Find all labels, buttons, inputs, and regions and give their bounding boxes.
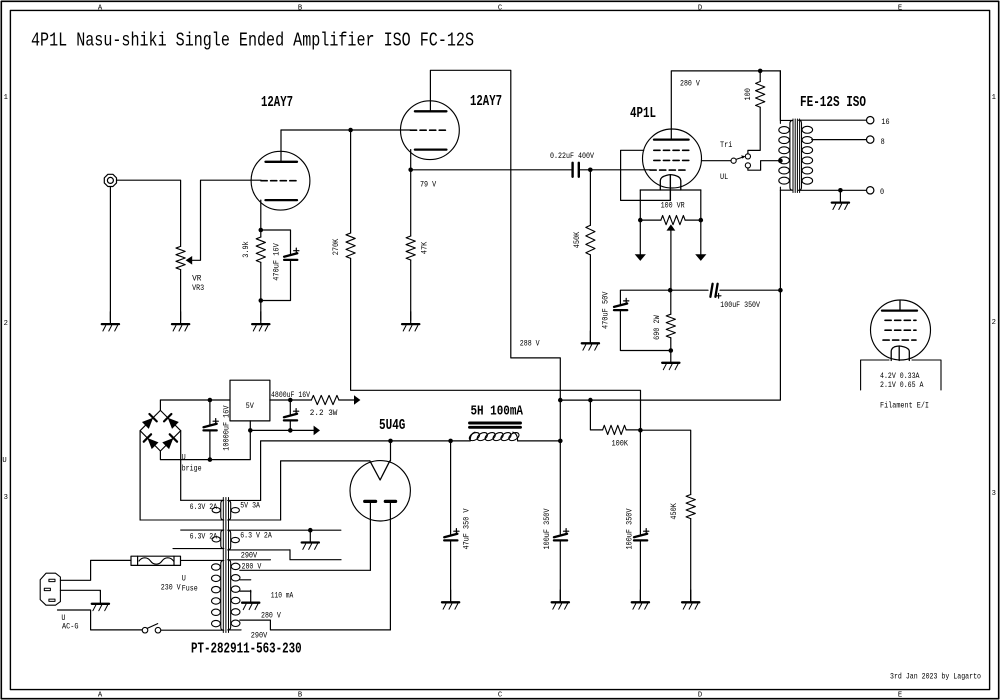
ground filter cap 1 xyxy=(559,590,561,602)
wire to filament plus arrow xyxy=(339,399,354,401)
svg-text:280 V: 280 V xyxy=(680,80,700,89)
triode V2 12AY7 cathode follower xyxy=(401,101,460,160)
svg-text:0.22uF 400V: 0.22uF 400V xyxy=(550,152,594,161)
wire AC earth pin to ground xyxy=(60,590,100,591)
junction filament rail right xyxy=(699,218,704,223)
svg-text:290V: 290V xyxy=(251,631,268,640)
svg-text:U: U xyxy=(2,457,6,465)
wire cathode bypass loop bottom xyxy=(261,260,291,301)
svg-text:16: 16 xyxy=(881,118,889,127)
svg-text:PT-282911-563-230: PT-282911-563-230 xyxy=(191,642,302,658)
wire g3 to filament center tap xyxy=(621,150,671,200)
svg-text:3.9k: 3.9k xyxy=(241,241,251,258)
junction V1 cathode bottom xyxy=(259,298,264,303)
wire 5V winding top to B+ rail xyxy=(261,441,391,501)
resistor 690 2W cathode bias xyxy=(670,290,672,314)
capacitor 470uF 16V cathode bypass xyxy=(284,259,297,261)
bridge diode top-left xyxy=(142,418,153,429)
ground V1 cathode xyxy=(260,312,262,324)
junction 47uF node xyxy=(448,439,453,444)
junction 288V at choke xyxy=(558,398,563,403)
resistor 100K decoupling xyxy=(603,425,627,434)
wire coupling cap to 4P1L grid xyxy=(580,169,650,171)
wire UL contact to UL tap xyxy=(748,161,781,171)
resistor 100 snubber xyxy=(759,71,761,82)
ground VR3 xyxy=(180,312,182,324)
svg-text:B: B xyxy=(298,4,303,12)
junction choke output xyxy=(558,439,563,444)
junction 4800uF top xyxy=(288,398,293,403)
junction 10000uF bottom xyxy=(208,457,213,462)
wire 100 ohm to Tri contact xyxy=(748,107,760,154)
wire V1 cathode to ground xyxy=(260,301,262,321)
ground OPT secondary xyxy=(839,190,841,202)
ground HV center tap xyxy=(250,590,252,602)
wire VR3 wiper to 12AY7 grid xyxy=(192,180,261,260)
wire VR3 bottom to ground xyxy=(180,270,182,321)
resistor 450K bleeder xyxy=(686,495,695,519)
AC inlet U AC-G xyxy=(40,573,60,605)
wire bridge minus rail xyxy=(160,430,250,459)
switch lever xyxy=(736,157,744,160)
input jack J1 xyxy=(104,174,116,186)
svg-text:47K: 47K xyxy=(420,242,429,254)
junction OPT bottom node xyxy=(778,288,783,293)
PT winding 6.3 V 2A secondary xyxy=(228,530,341,550)
wire V1 plate to node A xyxy=(280,130,282,162)
svg-text:brige: brige xyxy=(182,464,202,474)
svg-text:Filament E/I: Filament E/I xyxy=(880,401,929,411)
junction 100K feed xyxy=(588,398,593,403)
resistor 270K plate load xyxy=(350,130,352,233)
switch Tri contact xyxy=(745,154,750,159)
ground jack xyxy=(109,312,111,324)
PT primary 230V winding xyxy=(161,560,224,630)
ground 450K bleeder xyxy=(690,590,692,602)
wire HV center tap to ground xyxy=(240,590,251,593)
junction secondary ground xyxy=(838,188,843,193)
filament supply arrow minus xyxy=(314,426,320,436)
wire OPT primary bottom to B+ rail xyxy=(641,190,781,400)
svg-text:4P1L Nasu-shiki Single Ended A: 4P1L Nasu-shiki Single Ended Amplifier I… xyxy=(31,30,474,52)
svg-text:290V: 290V xyxy=(241,551,258,560)
svg-text:2.2 3W: 2.2 3W xyxy=(310,409,338,418)
wire regulator ground pin xyxy=(249,421,251,431)
svg-text:450K: 450K xyxy=(573,232,582,249)
wire decoupled node to 450K xyxy=(640,430,690,494)
PT core xyxy=(222,498,224,633)
junction 10000uF top xyxy=(208,398,213,403)
junction V2 cathode xyxy=(408,168,413,173)
bridge diode top-right xyxy=(168,418,179,429)
svg-text:2.1V 0.65 A: 2.1V 0.65 A xyxy=(880,381,924,390)
svg-text:280 V: 280 V xyxy=(242,562,262,571)
terminal 16 ohm xyxy=(867,117,874,124)
svg-text:6.3V 2A: 6.3V 2A xyxy=(190,533,218,542)
junction regulator ground xyxy=(248,428,253,433)
PT winding 6.3V 2A no1 xyxy=(140,500,224,520)
wire B+ rail from rectifier xyxy=(391,440,451,442)
wire 5U4G left plate to 280V tap xyxy=(369,503,371,570)
svg-text:3rd Jan 2023 by Lagarto: 3rd Jan 2023 by Lagarto xyxy=(890,672,981,682)
svg-text:230 V: 230 V xyxy=(161,583,181,592)
switch SW1 Tri/UL common contact xyxy=(731,158,736,163)
svg-text:D: D xyxy=(698,4,702,12)
svg-text:270K: 270K xyxy=(332,239,341,256)
PT HV winding 280-0-280 xyxy=(228,560,271,630)
svg-text:470uF 16V: 470uF 16V xyxy=(273,243,282,281)
svg-text:47uF 350 V: 47uF 350 V xyxy=(462,508,471,549)
svg-text:100uF 350V: 100uF 350V xyxy=(720,301,760,310)
wire 280V tap upper xyxy=(240,569,371,571)
svg-text:4P1L: 4P1L xyxy=(630,106,656,122)
svg-text:AC-G: AC-G xyxy=(62,623,79,632)
svg-text:470uF 50V: 470uF 50V xyxy=(601,292,610,330)
svg-text:5V 3A: 5V 3A xyxy=(240,501,260,510)
svg-text:Tri: Tri xyxy=(720,140,732,150)
wire 5U4G filament left to 5V winding xyxy=(281,461,370,520)
junction node A xyxy=(348,128,353,133)
svg-text:U: U xyxy=(182,454,186,463)
wire jack to VR3 top xyxy=(117,180,181,246)
ground 47K xyxy=(410,312,412,324)
5U4G plate bars xyxy=(365,500,376,503)
wire ultrapath cap to OPT bottom xyxy=(720,289,780,291)
potentiometer VR3 xyxy=(176,246,185,269)
OPT secondary winding xyxy=(799,120,867,190)
capacitor 47uF 350V reservoir xyxy=(450,441,452,534)
junction rectifier output xyxy=(388,439,393,444)
wire regulator output xyxy=(270,399,312,401)
wire g2 to switch common xyxy=(702,160,732,162)
svg-text:110 mA: 110 mA xyxy=(271,592,294,601)
OPT primary winding xyxy=(779,71,781,121)
svg-text:2: 2 xyxy=(992,319,996,327)
svg-text:C: C xyxy=(498,692,503,700)
wire 100VR wiper to cathode node xyxy=(670,231,672,291)
svg-text:6.3V 2A: 6.3V 2A xyxy=(190,503,218,512)
svg-text:E: E xyxy=(898,4,902,12)
junction filament rail left xyxy=(638,218,643,223)
svg-text:5H 100mA: 5H 100mA xyxy=(471,404,524,420)
filament supply arrow left xyxy=(639,220,641,254)
PT winding 6.3V 2A no2 xyxy=(173,530,224,549)
svg-text:5V: 5V xyxy=(246,402,254,411)
svg-text:12AY7: 12AY7 xyxy=(261,95,293,111)
tube 4P1L filament wiring info xyxy=(871,300,931,360)
junction cathode bottom xyxy=(669,348,674,353)
capacitor 100uF 350V filter 2 xyxy=(639,430,641,534)
ground heater winding xyxy=(309,530,311,542)
junction heater winding ground xyxy=(308,528,313,533)
capacitor 100uF 350V filter 1 xyxy=(559,441,561,534)
capacitor 10000uF 16V xyxy=(209,400,211,425)
wire heater winding bottom 290V step xyxy=(290,550,341,560)
svg-text:UL: UL xyxy=(720,173,728,182)
bridge diode bottom-right xyxy=(162,438,173,449)
wire bridge plus to regulator xyxy=(160,400,230,410)
svg-text:280 V: 280 V xyxy=(261,612,281,621)
junction 100K right node xyxy=(638,428,643,433)
svg-text:4.2V 0.33A: 4.2V 0.33A xyxy=(880,372,920,381)
svg-text:FE-12S ISO: FE-12S ISO xyxy=(800,95,866,111)
svg-text:A: A xyxy=(98,4,103,12)
capacitor 100uF 350V ultrapath xyxy=(710,284,712,297)
filament info box xyxy=(861,360,889,390)
svg-text:79 V: 79 V xyxy=(420,180,436,189)
svg-text:1: 1 xyxy=(4,94,8,102)
bridge diode bottom-left xyxy=(147,438,158,449)
wire unused tap stub xyxy=(240,579,251,581)
capacitor 470uF 50V cathode bypass xyxy=(614,309,627,311)
wire V2 cathode xyxy=(410,150,412,170)
wire 100K drop xyxy=(590,400,602,430)
wire 6.3V no1 top to bridge xyxy=(180,431,182,501)
ground 450K xyxy=(589,331,591,343)
svg-text:12AY7: 12AY7 xyxy=(470,94,502,110)
svg-text:3: 3 xyxy=(4,494,8,502)
terminal 0 ohm xyxy=(867,187,874,194)
fuse F1 xyxy=(131,556,181,565)
filament supply arrow right xyxy=(700,220,702,254)
wire 5U4G right plate to lower 280V tap xyxy=(389,503,391,630)
junction 100 ohm tap xyxy=(758,69,763,74)
resistor 2.2 3W filament dropper xyxy=(311,395,339,404)
triode V1 12AY7 first stage xyxy=(251,151,310,210)
svg-text:3: 3 xyxy=(992,490,996,498)
VR3 wiper arrow xyxy=(186,256,193,265)
wire 6.3V no1 bottom to bridge xyxy=(139,431,141,520)
svg-text:1: 1 xyxy=(992,94,996,102)
svg-text:VR: VR xyxy=(192,275,201,284)
switch UL contact xyxy=(745,163,750,168)
wire 280V tap lower step xyxy=(240,620,391,630)
OPT core xyxy=(792,119,794,193)
wire 470uF to bottom rail xyxy=(620,310,670,350)
pentode U2 4P1L output tube xyxy=(643,129,702,188)
resistor 47K cathode load xyxy=(410,170,412,236)
svg-text:0: 0 xyxy=(880,188,884,197)
terminal 8 ohm xyxy=(867,136,874,143)
svg-text:B: B xyxy=(298,692,303,700)
5U4G filament V xyxy=(370,461,390,480)
resistor 3.9k cathode xyxy=(260,230,262,237)
svg-text:100: 100 xyxy=(744,88,753,100)
ground 47uF xyxy=(450,590,452,602)
capacitor 4800uF 16V xyxy=(289,400,291,415)
svg-text:4800uF 16V: 4800uF 16V xyxy=(271,391,310,400)
wire 270K bottom to B+ node xyxy=(351,258,641,430)
svg-text:VR3: VR3 xyxy=(192,284,204,293)
wire 4P1L filament rail xyxy=(640,189,701,191)
filament supply arrow plus xyxy=(354,395,360,405)
capacitor 0.22uF 400V coupling xyxy=(571,163,573,177)
junction grid node xyxy=(588,168,593,173)
wire filament minus rail xyxy=(250,429,313,431)
svg-text:E: E xyxy=(898,692,902,700)
wire V2 cathode to coupling cap xyxy=(411,169,572,171)
junction 4800uF bottom xyxy=(288,428,293,433)
wire 5U4G filament right to B+ xyxy=(390,441,392,461)
resistor 450K grid leak xyxy=(589,170,591,226)
svg-text:C: C xyxy=(498,4,503,12)
wire B+ 288V distribution xyxy=(560,399,640,401)
regulator U4 5V box xyxy=(230,380,270,421)
svg-text:100uF 350V: 100uF 350V xyxy=(543,508,552,549)
PT winding 5V 3A xyxy=(228,500,281,520)
junction cathode node xyxy=(668,288,673,293)
bridge rectifier U1 brige xyxy=(140,410,181,451)
svg-text:100K: 100K xyxy=(612,440,629,449)
svg-text:D: D xyxy=(698,692,702,700)
ground cathode network xyxy=(670,351,672,363)
svg-text:2: 2 xyxy=(4,320,8,328)
100 VR wiper arrow xyxy=(667,224,676,230)
wire 4P1L plate to 280V xyxy=(671,71,780,140)
svg-text:5U4G: 5U4G xyxy=(379,418,406,434)
ground AC earth xyxy=(99,592,101,604)
wire choke output link xyxy=(559,400,561,441)
switch SW2 mains xyxy=(142,627,148,633)
svg-text:8: 8 xyxy=(881,138,885,147)
wire cathode to ultrapath cap xyxy=(670,289,708,291)
wire cathode node left branch xyxy=(620,290,670,305)
svg-text:100uF 350V: 100uF 350V xyxy=(626,508,635,549)
wire node A to V2 grid xyxy=(281,129,410,131)
svg-text:288 V: 288 V xyxy=(520,339,540,348)
svg-text:Fuse: Fuse xyxy=(182,585,198,594)
junction V1 cathode top xyxy=(259,228,264,233)
ground filter cap 2 xyxy=(639,590,641,602)
wire V1 cathode xyxy=(260,200,262,230)
svg-text:690 2W: 690 2W xyxy=(653,315,662,340)
svg-text:A: A xyxy=(98,692,103,700)
wire AC neutral to switch xyxy=(58,610,143,630)
potentiometer 100 VR hum balance xyxy=(640,219,661,221)
svg-text:U: U xyxy=(182,575,186,584)
svg-text:450K: 450K xyxy=(670,503,679,520)
wire OPT secondary 8 ohm tap xyxy=(812,139,867,141)
svg-text:6.3 V 2A: 6.3 V 2A xyxy=(240,532,272,541)
wire V2 plate to 288V rail xyxy=(430,70,560,400)
junction UL tap on OPT primary xyxy=(778,158,783,163)
wire jack sleeve to ground xyxy=(109,187,111,320)
svg-text:100 VR: 100 VR xyxy=(661,201,685,210)
wire cathode bypass loop top xyxy=(261,230,291,255)
wire fuse to AC inlet live xyxy=(60,560,131,580)
